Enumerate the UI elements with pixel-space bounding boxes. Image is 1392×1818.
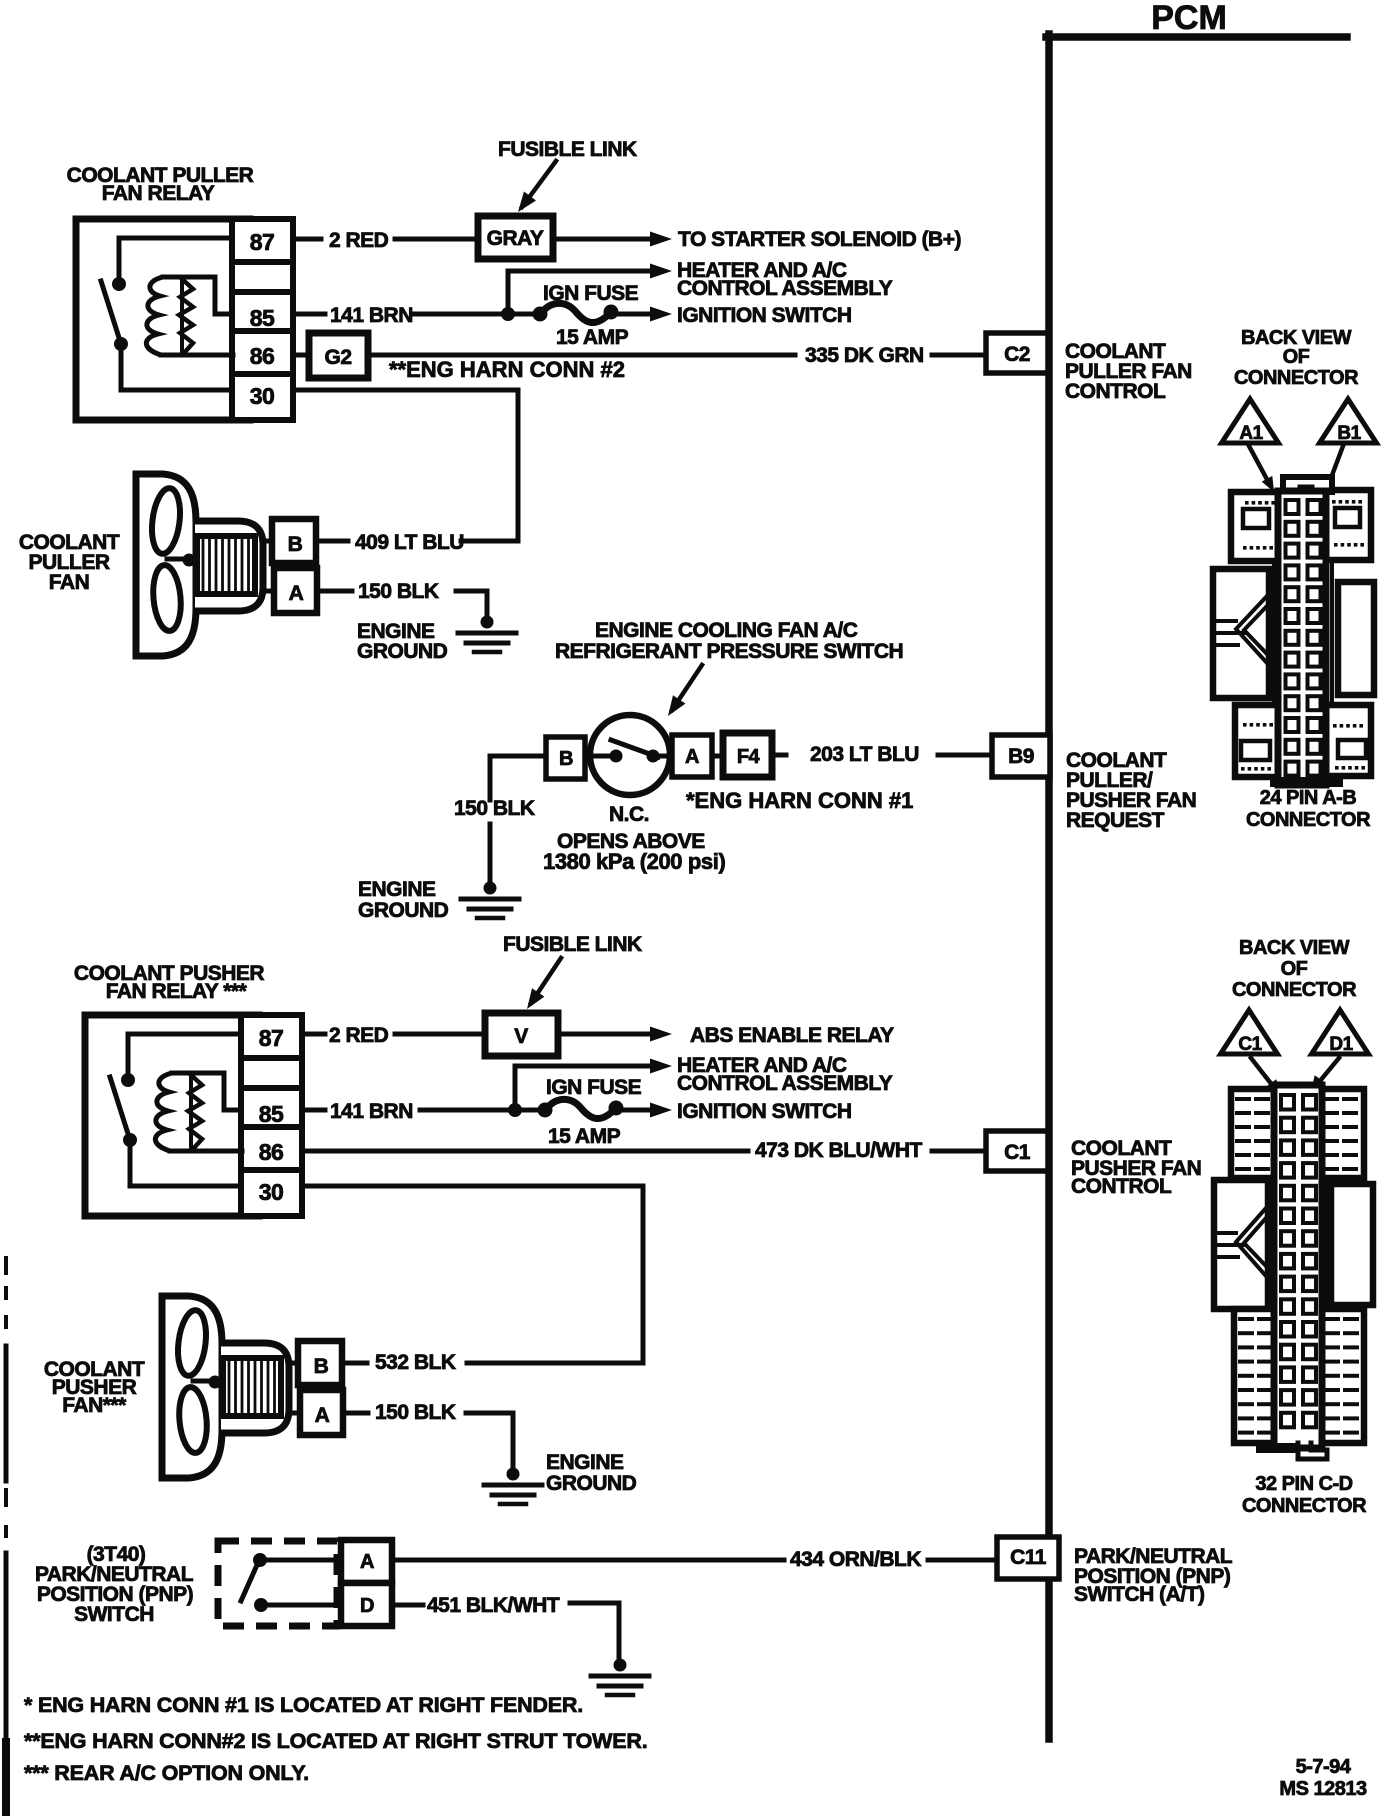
wire fuse to ignition switch with arrow xyxy=(611,312,650,317)
svg-text:CONNECTOR: CONNECTOR xyxy=(1234,367,1359,389)
coolant pusher fan motor housing xyxy=(221,1343,289,1433)
pusher fan pin A box xyxy=(300,1390,343,1435)
24 pin connector bottom-left wing xyxy=(1235,705,1278,777)
svg-text:86: 86 xyxy=(259,1139,284,1165)
svg-text:IGNITION SWITCH: IGNITION SWITCH xyxy=(677,1100,852,1123)
wire to engine ground 2 xyxy=(488,824,493,884)
wire 2 RED from pusher pin 87 xyxy=(302,1032,325,1037)
svg-text:15 AMP: 15 AMP xyxy=(556,326,629,349)
wire V to ABS enable relay with arrow xyxy=(558,1032,650,1037)
32 pin connector bottom block xyxy=(1234,1309,1364,1443)
ignition fuse 15 amp xyxy=(533,307,548,322)
coolant puller fan shaft xyxy=(167,557,186,562)
fusible link leader arrow top xyxy=(522,161,556,207)
svg-text:TO STARTER SOLENOID (B+): TO STARTER SOLENOID (B+) xyxy=(678,228,961,251)
svg-text:150 BLK: 150 BLK xyxy=(358,580,439,603)
callout triangle B1 xyxy=(1320,399,1377,443)
svg-text:2 RED: 2 RED xyxy=(329,1024,389,1047)
fusible link GRAY box xyxy=(478,216,553,259)
coolant pusher fan relay switch contacts xyxy=(121,1073,135,1087)
svg-text:* ENG HARN CONN #1 IS LOCATED: * ENG HARN CONN #1 IS LOCATED AT RIGHT F… xyxy=(24,1693,583,1717)
svg-text:**ENG HARN CONN #2: **ENG HARN CONN #2 xyxy=(389,357,625,382)
svg-text:30: 30 xyxy=(259,1179,284,1205)
svg-text:15 AMP: 15 AMP xyxy=(548,1125,621,1148)
svg-text:FAN RELAY: FAN RELAY xyxy=(102,182,215,205)
fusible link V box xyxy=(485,1013,558,1056)
wire 2 RED to fusible link V xyxy=(395,1032,485,1037)
wire 203 LT BLU to PCM xyxy=(772,753,786,758)
pressure switch contacts xyxy=(610,750,623,763)
svg-text:D: D xyxy=(360,1595,374,1617)
leader line from A1 xyxy=(1249,446,1270,485)
svg-text:451 BLK/WHT: 451 BLK/WHT xyxy=(427,1594,560,1617)
wire 451 BLK/WHT from pin D xyxy=(392,1603,423,1608)
engine ground 1 symbol xyxy=(481,616,494,629)
connector G2 box xyxy=(309,333,368,378)
wire pusher pin 30 down to fan feed xyxy=(302,1186,643,1363)
wire 409 LT BLU from fan pin B xyxy=(316,539,348,544)
svg-text:434 ORN/BLK: 434 ORN/BLK xyxy=(790,1548,921,1571)
coolant pusher fan relay coil xyxy=(155,1073,172,1151)
wire to engine ground 4 xyxy=(570,1603,619,1661)
svg-text:GROUND: GROUND xyxy=(357,640,448,663)
puller fan pin B box xyxy=(272,519,316,563)
coolant puller fan shroud xyxy=(136,474,196,656)
PCM terminal B9 box xyxy=(992,735,1050,777)
puller fan pin A box xyxy=(274,568,317,613)
wire GRAY to starter solenoid with arrow xyxy=(553,237,650,242)
svg-text:A: A xyxy=(360,1551,374,1573)
wire to engine ground 1 xyxy=(456,591,487,618)
wire 150 BLK from pressure switch pin B xyxy=(490,756,546,800)
coolant pusher fan relay wire contact to pin 30 xyxy=(130,1140,241,1186)
wire 150 BLK from pusher fan pin A xyxy=(343,1411,368,1416)
svg-text:1380 kPa (200 psi): 1380 kPa (200 psi) xyxy=(543,849,725,874)
svg-text:ABS ENABLE RELAY: ABS ENABLE RELAY xyxy=(690,1024,894,1047)
coolant puller fan relay pin column xyxy=(232,219,293,420)
svg-text:REQUEST: REQUEST xyxy=(1066,809,1165,832)
engine ground 2 symbol xyxy=(484,882,497,895)
svg-text:N.C.: N.C. xyxy=(609,803,649,826)
svg-text:150 BLK: 150 BLK xyxy=(375,1401,456,1424)
wire junction to fuse xyxy=(508,312,540,317)
coolant puller fan relay wire contact to pin 30 xyxy=(121,344,232,390)
svg-text:SWITCH: SWITCH xyxy=(74,1603,154,1626)
svg-text:141 BRN: 141 BRN xyxy=(330,1100,413,1123)
wire 335 DK GRN to PCM xyxy=(368,353,795,358)
pressure switch leader arrow xyxy=(672,665,702,710)
wire 141 BRN to junction xyxy=(414,312,508,317)
24 pin connector top-right wing xyxy=(1326,490,1371,560)
coolant puller fan relay wire coil to pin 85 xyxy=(163,277,232,314)
PCM terminal C2 box xyxy=(986,333,1048,373)
pressure switch pin B box xyxy=(546,737,585,779)
svg-text:GROUND: GROUND xyxy=(546,1472,637,1495)
svg-text:87: 87 xyxy=(250,229,275,255)
coolant pusher fan relay wire contact to pin 87 xyxy=(128,1034,241,1080)
PNP switch dashed box xyxy=(218,1541,337,1626)
svg-text:C1: C1 xyxy=(1238,1034,1262,1055)
wire 2 RED to fusible link xyxy=(395,237,478,242)
svg-text:2 RED: 2 RED xyxy=(329,229,389,252)
svg-text:*** REAR A/C OPTION ONLY.: *** REAR A/C OPTION ONLY. xyxy=(24,1761,309,1785)
fusible link leader arrow bottom xyxy=(531,958,561,1003)
32 pin connector top block xyxy=(1231,1089,1364,1178)
svg-text:MS 12813: MS 12813 xyxy=(1279,1778,1367,1800)
wire 141 BRN to junction 2 xyxy=(420,1108,515,1113)
svg-text:IGN FUSE: IGN FUSE xyxy=(546,1076,642,1099)
junction node on 141 BRN xyxy=(501,307,515,321)
wire 150 BLK from fan pin A xyxy=(317,589,352,594)
PCM terminal C11 box xyxy=(997,1537,1059,1579)
wire 532 BLK from pusher fan pin B xyxy=(342,1361,367,1366)
svg-text:86: 86 xyxy=(250,343,275,369)
svg-text:V: V xyxy=(514,1025,528,1048)
svg-text:ENGINE: ENGINE xyxy=(358,878,436,901)
32 pin connector mid-left lock block xyxy=(1214,1180,1268,1309)
svg-text:24 PIN A-B: 24 PIN A-B xyxy=(1260,787,1357,809)
wire contact to pin A xyxy=(659,754,672,759)
coolant puller fan relay outer box xyxy=(76,219,250,420)
svg-text:A: A xyxy=(289,582,304,605)
engine ground 4 symbol xyxy=(614,1659,627,1672)
page edge marks xyxy=(4,1258,8,1273)
coolant puller fan motor winding box xyxy=(197,536,255,594)
svg-text:GRAY: GRAY xyxy=(487,227,544,250)
svg-text:CONTROL ASSEMBLY: CONTROL ASSEMBLY xyxy=(677,277,893,300)
svg-text:CONNECTOR: CONNECTOR xyxy=(1242,1495,1367,1517)
svg-text:PCM: PCM xyxy=(1151,0,1227,37)
svg-text:CONNECTOR: CONNECTOR xyxy=(1232,979,1357,1001)
svg-text:150 BLK: 150 BLK xyxy=(454,797,535,820)
32 pin connector mid-right block xyxy=(1331,1184,1373,1305)
coolant puller fan relay coil xyxy=(146,277,163,355)
svg-text:SWITCH (A/T): SWITCH (A/T) xyxy=(1074,1583,1204,1606)
svg-text:B: B xyxy=(288,533,303,556)
svg-text:C1: C1 xyxy=(1004,1141,1031,1164)
svg-text:FAN RELAY ***: FAN RELAY *** xyxy=(106,980,248,1003)
PNP pin A box xyxy=(341,1540,392,1583)
svg-text:G2: G2 xyxy=(324,346,351,369)
svg-text:B9: B9 xyxy=(1008,745,1034,768)
svg-text:OF: OF xyxy=(1281,958,1308,980)
svg-text:532 BLK: 532 BLK xyxy=(375,1351,456,1374)
coolant puller fan blade upper xyxy=(149,487,184,556)
callout triangle A1 xyxy=(1222,399,1279,443)
wire pin 86 to G2 connector xyxy=(293,353,309,358)
engine ground 3 symbol xyxy=(507,1468,520,1481)
PCM boundary line xyxy=(1045,34,1053,1739)
coolant pusher fan shaft xyxy=(193,1379,212,1384)
svg-text:ENGINE COOLING FAN A/C: ENGINE COOLING FAN A/C xyxy=(595,619,858,642)
svg-text:141 BRN: 141 BRN xyxy=(330,304,413,327)
wire to engine ground 3 xyxy=(466,1413,513,1470)
coolant puller fan relay wire coil to pin 86 xyxy=(161,353,233,358)
svg-text:409 LT BLU: 409 LT BLU xyxy=(355,531,464,554)
coolant puller fan relay wire contact to pin 87 xyxy=(119,238,232,284)
24 pin connector top tab xyxy=(1283,477,1332,492)
svg-text:87: 87 xyxy=(259,1025,284,1051)
pressure switch body circle xyxy=(590,715,670,795)
svg-text:A: A xyxy=(315,1404,330,1427)
svg-text:203 LT BLU: 203 LT BLU xyxy=(810,743,919,766)
junction node 2 xyxy=(508,1103,522,1117)
coolant pusher fan blade lower xyxy=(177,1386,210,1454)
PNP switch wire to pin A xyxy=(266,1558,341,1563)
callout triangle C1 xyxy=(1221,1010,1278,1054)
pressure switch pin A box xyxy=(672,735,712,777)
svg-text:5-7-94: 5-7-94 xyxy=(1296,1756,1352,1778)
svg-text:D1: D1 xyxy=(1329,1034,1353,1055)
svg-text:85: 85 xyxy=(259,1101,284,1127)
PCM terminal C1 box xyxy=(986,1131,1048,1171)
svg-text:REFRIGERANT PRESSURE SWITCH: REFRIGERANT PRESSURE SWITCH xyxy=(555,640,903,663)
wire junction 2 to fuse xyxy=(515,1108,545,1113)
svg-text:*ENG HARN CONN #1: *ENG HARN CONN #1 xyxy=(686,788,913,813)
svg-text:**ENG HARN CONN#2 IS LOCATED A: **ENG HARN CONN#2 IS LOCATED AT RIGHT ST… xyxy=(24,1729,647,1753)
svg-text:A1: A1 xyxy=(1239,423,1263,444)
wire pin B to contact xyxy=(585,754,610,759)
wire 473 DK BLU/WHT from pusher pin 86 to PCM xyxy=(302,1149,748,1154)
PNP pin D box xyxy=(341,1583,392,1626)
branch wire to heater and A/C with arrow xyxy=(508,271,650,314)
svg-text:CONTROL: CONTROL xyxy=(1071,1175,1172,1198)
svg-text:32 PIN C-D: 32 PIN C-D xyxy=(1255,1473,1352,1495)
svg-text:F4: F4 xyxy=(737,746,761,768)
coolant puller fan motor housing xyxy=(195,521,263,611)
svg-text:CONTROL ASSEMBLY: CONTROL ASSEMBLY xyxy=(677,1072,893,1095)
callout triangle D1 xyxy=(1312,1010,1369,1054)
32 pin connector bottom tab xyxy=(1256,1443,1298,1453)
svg-text:473 DK BLU/WHT: 473 DK BLU/WHT xyxy=(755,1139,923,1162)
svg-text:CONNECTOR: CONNECTOR xyxy=(1246,809,1371,831)
leader line from B1 xyxy=(1319,446,1343,510)
svg-text:GROUND: GROUND xyxy=(358,899,449,922)
svg-text:ENGINE: ENGINE xyxy=(546,1451,624,1474)
24 pin connector center column xyxy=(1278,491,1326,785)
svg-text:FAN: FAN xyxy=(49,571,90,594)
wire 2 RED from pin 87 xyxy=(293,237,321,242)
svg-text:B: B xyxy=(314,1355,329,1378)
svg-text:B: B xyxy=(559,748,573,770)
wire 141 BRN from pusher pin 85 xyxy=(302,1108,325,1113)
svg-text:B1: B1 xyxy=(1337,423,1361,444)
coolant pusher fan motor leads xyxy=(289,1361,299,1366)
24 pin connector bottom tab xyxy=(1270,777,1343,787)
24 pin connector bottom-right wing xyxy=(1326,705,1371,776)
svg-text:A: A xyxy=(685,746,699,768)
24 pin connector mid-right block xyxy=(1338,582,1374,695)
pusher fan pin B box xyxy=(298,1341,342,1385)
svg-text:CONTROL: CONTROL xyxy=(1065,380,1166,403)
coolant pusher fan relay outer box xyxy=(85,1015,259,1216)
svg-text:C11: C11 xyxy=(1010,1546,1047,1569)
svg-text:85: 85 xyxy=(250,305,275,331)
PNP switch wire to pin D xyxy=(267,1603,341,1608)
coolant pusher fan relay wire coil to pin 86 xyxy=(170,1149,242,1154)
coolant pusher fan relay wire coil to pin 85 xyxy=(172,1073,241,1110)
svg-text:IGNITION SWITCH: IGNITION SWITCH xyxy=(677,304,852,327)
ignition fuse 2 15 amp xyxy=(538,1103,553,1118)
svg-text:30: 30 xyxy=(250,383,275,409)
24 pin connector mid-left lock block xyxy=(1213,569,1269,698)
svg-text:C2: C2 xyxy=(1004,343,1030,366)
svg-text:BACK VIEW: BACK VIEW xyxy=(1239,937,1350,959)
svg-text:OF: OF xyxy=(1283,346,1310,368)
coolant pusher fan blade upper xyxy=(175,1309,210,1378)
coolant puller fan relay switch contacts xyxy=(112,277,126,291)
svg-text:FUSIBLE LINK: FUSIBLE LINK xyxy=(498,138,637,161)
svg-text:FUSIBLE LINK: FUSIBLE LINK xyxy=(503,933,642,956)
wire fuse 2 to ignition switch with arrow xyxy=(616,1108,650,1113)
wire 141 BRN from pin 85 xyxy=(293,312,325,317)
32 pin connector center column xyxy=(1274,1085,1322,1448)
coolant pusher fan shroud xyxy=(162,1296,222,1478)
coolant puller fan motor leads xyxy=(263,539,273,544)
svg-text:335 DK GRN: 335 DK GRN xyxy=(805,344,924,367)
svg-text:FAN***: FAN*** xyxy=(62,1394,127,1417)
wire pin A to F4 xyxy=(712,754,723,759)
leader line from C1 xyxy=(1251,1058,1276,1090)
coolant pusher fan motor winding box xyxy=(223,1358,281,1416)
PNP switch contacts xyxy=(253,1553,267,1567)
24 pin connector top-left wing xyxy=(1231,492,1278,561)
branch wire to heater A/C 2 with arrow xyxy=(515,1066,650,1110)
coolant pusher fan relay pin column xyxy=(241,1015,302,1216)
coolant puller fan blade lower xyxy=(151,564,184,632)
leader line from D1 xyxy=(1315,1058,1339,1087)
wire 434 ORN/BLK to PCM xyxy=(392,1558,784,1563)
wire pin 30 down to fan feed xyxy=(293,390,518,541)
connector F4 box xyxy=(723,733,772,777)
